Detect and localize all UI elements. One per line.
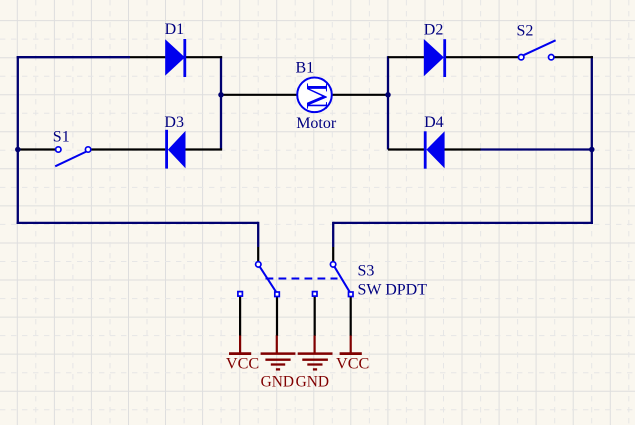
- wire: [220, 56, 222, 149]
- wire: [480, 148, 592, 150]
- power VCC (left): [226, 336, 259, 373]
- svg-text:D3: D3: [164, 114, 184, 131]
- svg-text:D2: D2: [424, 22, 444, 39]
- svg-text:GND: GND: [261, 374, 294, 391]
- svg-text:SW DPDT: SW DPDT: [358, 281, 428, 298]
- diode D4: [424, 114, 445, 169]
- pin S1.2 / pin D3.2: [90, 148, 165, 150]
- pin D4.2: [444, 148, 480, 150]
- ground GND (left): [261, 336, 296, 391]
- svg-text:D4: D4: [424, 114, 444, 131]
- motor B1: [296, 60, 337, 132]
- pin S3.4: [332, 247, 334, 262]
- junction node right: [589, 147, 595, 153]
- svg-text:Motor: Motor: [296, 115, 337, 132]
- pin S1.1: [19, 148, 56, 150]
- pin S3.5 wire: [314, 296, 316, 336]
- svg-text:VCC: VCC: [226, 354, 259, 372]
- switch S2: [517, 23, 556, 60]
- svg-text:VCC: VCC: [336, 354, 369, 372]
- diode D1: [165, 21, 187, 77]
- switch S1: [53, 128, 91, 166]
- wire: [17, 222, 259, 224]
- pin S3.3 wire: [276, 297, 278, 336]
- wire: [591, 56, 593, 224]
- wire: [332, 222, 334, 247]
- wire: [387, 56, 389, 149]
- pin D3.1: [185, 148, 222, 150]
- svg-text:M: M: [300, 82, 334, 109]
- svg-text:D1: D1: [165, 21, 185, 38]
- pin S3.6 wire: [350, 297, 352, 336]
- junction node B: [385, 92, 391, 98]
- power VCC (right): [336, 336, 369, 373]
- ground GND (right): [296, 336, 333, 391]
- diode D3: [164, 114, 185, 169]
- pin D4.1: [388, 148, 424, 150]
- pin S3.2 wire: [239, 296, 241, 336]
- pin B1.2: [332, 94, 389, 96]
- pin D1.1: [130, 56, 165, 58]
- wire: [257, 222, 259, 247]
- wire: [333, 222, 593, 224]
- pin D2.1: [388, 56, 424, 58]
- svg-text:B1: B1: [296, 60, 315, 77]
- wire: [17, 56, 19, 224]
- pin B1.1: [220, 94, 297, 96]
- pin S2.2: [554, 56, 593, 58]
- svg-text:S1: S1: [53, 128, 70, 145]
- svg-text:S3: S3: [358, 263, 375, 280]
- junction node A: [218, 92, 224, 98]
- junction node left: [15, 147, 21, 153]
- switch S3 (SW DPDT): [238, 262, 427, 299]
- pin D2.2 / pin S2.1: [446, 56, 519, 58]
- diode D2: [424, 22, 446, 77]
- wire: [17, 56, 130, 58]
- pin S3.1: [257, 247, 259, 262]
- svg-text:GND: GND: [296, 374, 329, 391]
- pin D1.2: [186, 56, 222, 58]
- svg-text:S2: S2: [517, 23, 534, 40]
